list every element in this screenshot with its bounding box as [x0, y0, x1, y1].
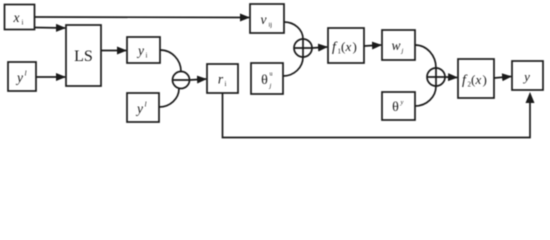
- block y_i (LS output): [127, 37, 160, 63]
- svg-text:y: y: [522, 69, 530, 84]
- block f_1(x) (activation 1): [328, 28, 364, 63]
- svg-text:j: j: [401, 48, 404, 55]
- block v_ij (weights): [250, 4, 284, 33]
- block w_j (hidden output): [382, 30, 415, 60]
- svg-text:x: x: [13, 10, 20, 25]
- svg-text:l: l: [25, 69, 27, 78]
- summing junction plus 1: [294, 39, 312, 57]
- wire theta^y to plus 2 (arc): [415, 86, 436, 106]
- wire plus 2 to f_2(x): [445, 76, 457, 79]
- svg-text:x: x: [475, 72, 482, 87]
- wire minus junction to r_i: [190, 79, 207, 80]
- wire f_1(x) to w_j: [364, 45, 381, 46]
- svg-text:j: j: [269, 83, 272, 90]
- svg-text:LS: LS: [74, 48, 93, 65]
- wire plus 1 to f_1(x): [312, 47, 327, 48]
- svg-text:y: y: [15, 70, 23, 85]
- block y_i^l (reference, right): [127, 93, 159, 122]
- arrowhead feedback into y: [526, 92, 535, 103]
- wire y_i^l input to LS: [36, 76, 65, 78]
- svg-text:u: u: [270, 72, 273, 78]
- svg-text:): ): [483, 72, 487, 87]
- wire r_i feedback to y (bottom bus): [223, 93, 531, 138]
- svg-text:i: i: [225, 80, 227, 88]
- block r_i (residual): [207, 64, 238, 93]
- wire y_i^l to minus junction (arc): [159, 89, 179, 108]
- wire f_2(x) to y: [494, 77, 511, 79]
- svg-text:w: w: [391, 38, 400, 53]
- wire theta_j^u to plus 1 (arc): [283, 57, 303, 76]
- svg-text:i: i: [146, 52, 148, 60]
- wire w_j to plus 2 (arc): [415, 45, 436, 68]
- svg-text:ij: ij: [269, 22, 273, 29]
- svg-text:y: y: [136, 43, 144, 58]
- svg-text:l: l: [145, 100, 147, 109]
- svg-text:y: y: [400, 99, 404, 106]
- wire LS to y_i: [101, 50, 126, 52]
- block y (output): [512, 61, 543, 90]
- svg-text:y: y: [135, 101, 143, 116]
- block LS: [66, 25, 101, 86]
- block f_2(x) (activation 2): [458, 59, 494, 98]
- wire y_i to minus junction (arc): [160, 50, 181, 72]
- svg-text:v: v: [261, 12, 267, 27]
- svg-text:): ): [353, 39, 357, 54]
- svg-text:x: x: [345, 39, 352, 54]
- wire x_i to v_ij (top bus): [35, 16, 249, 19]
- summing junction plus 2: [427, 68, 445, 86]
- svg-text:i: i: [22, 19, 24, 27]
- svg-text:θ: θ: [261, 73, 268, 88]
- block theta^y (bias 2): [382, 92, 415, 120]
- block x_i: [5, 5, 35, 30]
- summing junction minus (subtractor): [173, 72, 190, 89]
- block theta_j^u (bias 1): [251, 63, 283, 94]
- wire v_ij to plus 1 (arc): [284, 22, 303, 39]
- svg-text:θ: θ: [392, 100, 399, 115]
- svg-text:r: r: [218, 72, 224, 87]
- block y_i^l (input, left): [8, 62, 36, 91]
- wire x_i to LS: [35, 27, 65, 30]
